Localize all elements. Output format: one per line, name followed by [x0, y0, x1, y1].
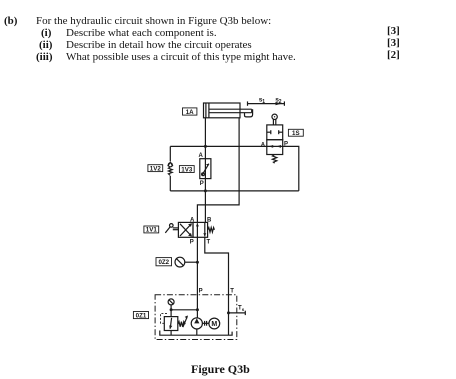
wire: 1V1 port P down to pump [196, 237, 198, 318]
stroke markers s1 s2 [248, 96, 285, 105]
svg-text:B: B [207, 217, 212, 223]
parallel arrows (right box) [196, 223, 198, 237]
pressure gauge (inside unit) [168, 299, 174, 317]
tank line [160, 331, 232, 336]
svg-text:M: M [211, 321, 217, 328]
wire: 1V2 branch verticals [169, 146, 171, 161]
adjust arrow [183, 316, 188, 327]
crossed arrows (left box) [180, 224, 191, 236]
pressure gauge 0Z2 [175, 257, 197, 267]
node: on P line [196, 308, 199, 311]
wire: 1S port P to right drop [283, 146, 299, 191]
label 1V3 [179, 166, 194, 174]
svg-text:P: P [190, 239, 194, 245]
power unit enclosure (dash-dot) [155, 295, 237, 340]
node junction on lower line [204, 189, 207, 192]
svg-text:0Z2: 0Z2 [158, 259, 169, 266]
valve body [267, 125, 283, 140]
question text [4, 15, 17, 27]
pilot dashes [161, 314, 168, 324]
label 0Z1 [133, 312, 148, 320]
wire: tee to P line [171, 309, 197, 311]
node: T line to Ts stub [227, 311, 230, 314]
wire: 1V1 port T jog right and down to tank [205, 237, 229, 335]
svg-text:T: T [230, 289, 234, 295]
flow path arrows (bottom box) [267, 145, 283, 147]
wire: lower horizontal line [170, 190, 298, 192]
svg-text:P: P [199, 289, 203, 295]
relief valve [161, 314, 188, 336]
spring [178, 322, 185, 327]
svg-text:P: P [200, 181, 204, 187]
wire: cylinder rod port down, jog left to 1V1 port A [197, 118, 239, 223]
svg-text:A: A [261, 143, 266, 149]
coupling [202, 321, 208, 326]
drain stem [170, 331, 172, 336]
svg-text:1: 1 [262, 99, 265, 105]
node: gauge/relief tee [170, 308, 173, 311]
node: gauge tee on P line [196, 261, 199, 264]
svg-text:s: s [242, 307, 245, 312]
port Ts stub [229, 306, 246, 316]
check valve 1V2 [168, 162, 173, 175]
wire: upper horizontal line (1V2 top to 1S port A) [170, 145, 266, 147]
label 0Z2 [156, 258, 172, 266]
lever actuator [170, 224, 174, 228]
valve 1S [261, 114, 288, 163]
svg-text:T: T [207, 239, 211, 245]
svg-text:A: A [190, 217, 195, 223]
roller [272, 114, 277, 119]
label 1V2 [148, 165, 163, 173]
node junction on upper line [204, 145, 207, 148]
label 1V1 [144, 226, 159, 234]
motor M [209, 318, 220, 329]
label 1A [183, 108, 197, 116]
svg-text:1V3: 1V3 [181, 166, 193, 173]
svg-text:1S: 1S [292, 130, 300, 137]
caption Figure Q3b [191, 363, 250, 375]
svg-text:1V1: 1V1 [146, 227, 158, 234]
spring [272, 155, 276, 164]
svg-text:A: A [199, 153, 204, 159]
pump [191, 318, 202, 335]
cylinder 1A [204, 103, 253, 118]
label 1S [288, 129, 303, 137]
blocked ports (top box) [267, 131, 271, 133]
svg-text:2: 2 [279, 99, 282, 105]
valve 1V1 [165, 217, 214, 245]
wire: cylinder piston port down to 1V1 port B (main vertical) [204, 118, 206, 223]
svg-text:1A: 1A [186, 109, 194, 116]
svg-text:0Z1: 0Z1 [136, 312, 147, 319]
spring [208, 228, 215, 233]
svg-text:1V2: 1V2 [150, 165, 162, 172]
flow control valve 1V3 [199, 153, 211, 187]
